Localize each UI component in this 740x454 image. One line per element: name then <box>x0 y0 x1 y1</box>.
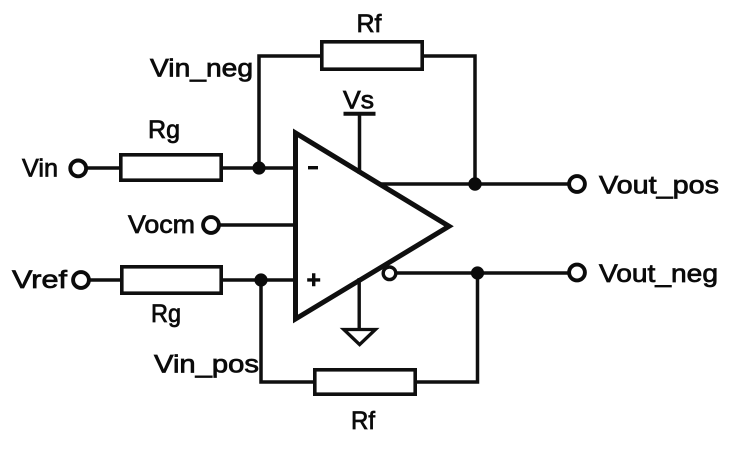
op-amp U1 <box>296 133 450 319</box>
ground <box>344 278 376 345</box>
wire: op-amp output to Vout_pos terminal <box>381 182 569 186</box>
terminal Vref <box>12 266 89 294</box>
svg-text:Vs: Vs <box>343 87 374 115</box>
terminal Vout_pos <box>569 172 719 200</box>
svg-text:Vout_neg: Vout_neg <box>599 260 718 288</box>
terminal Vout_neg <box>569 260 718 288</box>
svg-text:Vout_pos: Vout_pos <box>599 172 719 200</box>
wire: inverting output bubble to Vout_neg terminal <box>396 271 568 275</box>
resistor Rf (top feedback) <box>322 10 422 69</box>
svg-text:Vin_neg: Vin_neg <box>150 55 253 83</box>
terminal Vocm <box>128 211 219 239</box>
inverting output bubble <box>383 267 396 280</box>
wire: Vref terminal to Rg <box>89 278 122 282</box>
node Vout_pos (junction dot) <box>468 177 481 190</box>
power supply Vs <box>343 87 376 175</box>
resistor Rg (top input) <box>121 116 221 180</box>
wire: top Rf right lead down to Vout_pos node <box>423 56 475 182</box>
wire: bottom Rf right lead up to Vout_neg node <box>416 273 478 382</box>
node Vout_neg (junction dot) <box>471 266 484 279</box>
pin marker: non-inverting input (+) <box>307 273 320 286</box>
svg-text:Vocm: Vocm <box>128 211 195 239</box>
wire: top Rf left lead to Vin_neg node <box>259 56 321 166</box>
wire: Vin_pos node down to bottom Rf left lead <box>261 280 314 382</box>
wire: top Rg to op-amp inverting input <box>222 166 296 170</box>
svg-text:Vin_pos: Vin_pos <box>154 351 259 379</box>
svg-text:Vref: Vref <box>12 266 67 294</box>
resistor Rg (bottom input) <box>122 267 221 328</box>
wire: bottom Rg to op-amp non-inverting input <box>222 278 296 282</box>
node Vin_pos (junction dot) <box>254 273 267 286</box>
svg-text:Vin: Vin <box>22 155 58 183</box>
terminal Vin <box>22 155 86 183</box>
pin marker: inverting input (-) <box>308 166 318 169</box>
node Vin_neg (junction dot) <box>252 161 265 174</box>
svg-text:Rg: Rg <box>148 116 180 144</box>
wire: Vocm terminal to op-amp <box>219 223 296 227</box>
svg-text:Rg: Rg <box>151 300 181 328</box>
wire: Vin terminal to Rg <box>85 166 121 170</box>
resistor Rf (bottom feedback) <box>315 370 415 435</box>
svg-text:Rf: Rf <box>357 10 382 38</box>
svg-text:Rf: Rf <box>351 407 375 435</box>
